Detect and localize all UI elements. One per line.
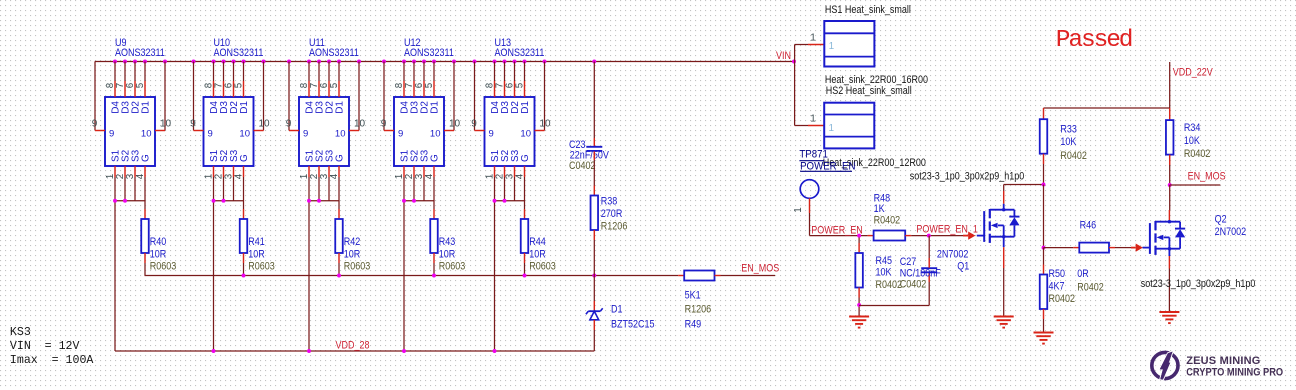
svg-text:10: 10 bbox=[430, 128, 441, 139]
pin numbers U13 8 7 6 5 bbox=[484, 82, 525, 88]
pin name U10 9 bbox=[208, 128, 213, 139]
testpoint TP871 symbol bbox=[800, 180, 819, 199]
pin name U12 9 bbox=[398, 128, 403, 139]
wire VIN to heat sinks riser bbox=[795, 45, 825, 126]
net label POWER_EN bbox=[811, 225, 863, 237]
svg-text:R0402: R0402 bbox=[876, 279, 903, 291]
svg-text:G: G bbox=[430, 154, 441, 162]
wire U13 pin 1 to VDD_28 rail bbox=[494, 177, 496, 351]
wire Q1 source to ground bbox=[1003, 237, 1005, 316]
svg-text:D1: D1 bbox=[430, 101, 441, 114]
svg-text:R0402: R0402 bbox=[1077, 282, 1104, 294]
pin number U11 10 bbox=[354, 118, 366, 129]
svg-text:C27: C27 bbox=[900, 256, 917, 268]
pin names U11 S1 S2 S3 G bbox=[305, 149, 346, 162]
junction dots VDD_28 rail bbox=[212, 349, 497, 353]
wires U12 pins 2,3 to tie bbox=[414, 177, 424, 201]
transistor Q1 (2N7002) bbox=[977, 208, 1020, 243]
pin number U9 10 bbox=[160, 118, 172, 129]
junction dots EN_MOS rail bbox=[242, 274, 597, 278]
resistor R44 bbox=[521, 219, 529, 253]
label R50 bbox=[1049, 268, 1076, 305]
svg-text:R0603: R0603 bbox=[248, 261, 275, 273]
svg-text:10: 10 bbox=[160, 118, 172, 129]
net label EN_MOS (right) bbox=[1170, 171, 1226, 185]
wire VIN bus bbox=[95, 61, 794, 63]
svg-text:R50: R50 bbox=[1049, 268, 1066, 280]
wire R46 to Q2 gate bbox=[1109, 247, 1131, 249]
pin name HS2 1 bbox=[829, 123, 835, 134]
svg-text:R0402: R0402 bbox=[874, 214, 901, 226]
wire U12 pin 9 (left) to bus bbox=[384, 62, 394, 131]
junction dot R45/C27 ground node bbox=[857, 303, 861, 307]
svg-text:10R: 10R bbox=[439, 248, 456, 260]
svg-text:G: G bbox=[335, 154, 346, 162]
svg-text:POWER_EN: POWER_EN bbox=[800, 160, 855, 173]
svg-text:CRYPTO MINING PRO: CRYPTO MINING PRO bbox=[1186, 367, 1283, 379]
ic U13 designator/comment labels bbox=[495, 37, 545, 59]
pin numbers U12 1 2 3 4 bbox=[394, 173, 435, 179]
label R33 bbox=[1060, 123, 1087, 162]
svg-text:AONS32311: AONS32311 bbox=[404, 47, 454, 59]
ic U10 (AONS32311) body bbox=[204, 97, 254, 166]
wire U13 pin 10 (right) to bus bbox=[535, 62, 545, 131]
svg-text:R42: R42 bbox=[344, 236, 361, 248]
resistor R46 bbox=[1079, 243, 1109, 253]
wire U10 pin 4 (G) to resistor bbox=[243, 177, 245, 219]
svg-text:Imax = 100A: Imax = 100A bbox=[10, 354, 94, 367]
pin names U13 D4 D3 D2 D1 bbox=[490, 101, 531, 114]
svg-text:R1206: R1206 bbox=[601, 221, 628, 233]
svg-text:4: 4 bbox=[424, 173, 435, 179]
ground (Q1 source) bbox=[994, 317, 1014, 328]
net label VDD_28 bbox=[336, 340, 370, 352]
wire Q1 drain node to R46 node bbox=[1043, 185, 1045, 248]
wire R48 to Q1 gate bbox=[905, 235, 966, 237]
wires U13 top pins 8-5 to VIN bus bbox=[495, 62, 525, 98]
wire U13 pin 4 (G) to resistor bbox=[524, 177, 526, 219]
pin name U9 9 bbox=[109, 128, 114, 139]
junction dots on VIN bus bbox=[113, 60, 796, 64]
svg-text:R41: R41 bbox=[248, 236, 265, 248]
svg-text:10: 10 bbox=[239, 128, 250, 139]
wire U9 source tie bbox=[115, 200, 145, 202]
wire VDD rail (R33 top) bbox=[1044, 108, 1170, 119]
svg-text:R0402: R0402 bbox=[1049, 293, 1076, 305]
resistor R50 bbox=[1040, 275, 1048, 310]
wire bus to C23 bbox=[593, 62, 595, 147]
pin number U13 10 bbox=[539, 118, 551, 129]
label R34 bbox=[1184, 122, 1211, 160]
svg-text:BZT52C15: BZT52C15 bbox=[611, 319, 655, 331]
resistor R43 bbox=[430, 219, 438, 253]
pin numbers U10 1 2 3 4 bbox=[203, 173, 244, 179]
svg-text:R1206: R1206 bbox=[685, 304, 712, 316]
svg-text:5: 5 bbox=[135, 82, 146, 88]
pin names U9 S1 S2 S3 G bbox=[111, 149, 152, 162]
svg-text:9: 9 bbox=[381, 118, 387, 129]
junction dots U11 tie bbox=[307, 199, 321, 203]
svg-text:9: 9 bbox=[208, 128, 213, 139]
heat sink HS1 bbox=[824, 21, 874, 67]
wire U13 source tie bbox=[495, 200, 525, 202]
wire R44 to EN_MOS rail bbox=[524, 253, 526, 276]
ic U13 (AONS32311) body bbox=[485, 97, 535, 166]
svg-text:10K: 10K bbox=[876, 266, 892, 278]
label C23 bbox=[569, 139, 609, 172]
svg-text:1: 1 bbox=[829, 123, 835, 134]
wire Q2 source to ground bbox=[1168, 249, 1170, 311]
pin numbers U9 8 7 6 5 bbox=[105, 82, 146, 88]
wire ground node to C27 bbox=[859, 273, 929, 306]
svg-text:Q2: Q2 bbox=[1215, 214, 1227, 226]
svg-text:4: 4 bbox=[135, 173, 146, 179]
svg-text:9: 9 bbox=[303, 128, 308, 139]
svg-text:1: 1 bbox=[829, 41, 835, 52]
wire U12 pin 1 to VDD_28 rail bbox=[403, 177, 405, 351]
arrow into Q2 gate bbox=[1131, 244, 1143, 252]
svg-text:D1: D1 bbox=[239, 101, 250, 114]
svg-text:5: 5 bbox=[424, 82, 435, 88]
svg-text:10: 10 bbox=[539, 118, 551, 129]
svg-text:2N7002: 2N7002 bbox=[1215, 226, 1247, 238]
wire U12 pin 10 (right) to bus bbox=[444, 62, 454, 131]
label R45 bbox=[876, 255, 903, 291]
svg-text:9: 9 bbox=[398, 128, 403, 139]
pin numbers U11 1 2 3 4 bbox=[299, 173, 340, 179]
wire U9 pin 10 (right) to bus bbox=[155, 62, 165, 131]
ground (R50) bbox=[1034, 333, 1054, 344]
resistor R41 bbox=[240, 219, 248, 253]
svg-text:AONS32311: AONS32311 bbox=[214, 47, 264, 59]
net label EN_MOS (left) bbox=[741, 263, 779, 275]
wires U13 pins 2,3 to tie bbox=[505, 177, 515, 201]
pin numbers U10 8 7 6 5 bbox=[203, 82, 244, 88]
resistor R49 bbox=[684, 271, 714, 281]
wire R43 to EN_MOS rail bbox=[433, 253, 435, 276]
junction dots U10 tie bbox=[212, 199, 226, 203]
pin names U10 D4 D3 D2 D1 bbox=[209, 101, 250, 114]
svg-text:9: 9 bbox=[92, 118, 98, 129]
svg-text:10: 10 bbox=[335, 128, 346, 139]
pin name U9 10 bbox=[141, 128, 152, 139]
svg-text:R0603: R0603 bbox=[344, 261, 371, 273]
pins U12 bottom 1-4 stubs bbox=[404, 166, 434, 177]
label R44 value/footprint bbox=[529, 236, 556, 273]
label R46 value/footprint bbox=[1077, 268, 1104, 294]
wire U13 pin 9 (left) to bus bbox=[475, 62, 485, 131]
net label VIN bbox=[776, 50, 791, 62]
wire U12 source tie bbox=[404, 200, 434, 202]
pins U9 bottom 1-4 stubs bbox=[115, 166, 145, 177]
svg-text:G: G bbox=[520, 154, 531, 162]
label R40 value/footprint bbox=[150, 236, 177, 273]
stamp Passed bbox=[1056, 27, 1132, 54]
svg-text:D1: D1 bbox=[141, 101, 152, 114]
svg-text:C0402: C0402 bbox=[569, 160, 596, 172]
net label POWER_EN_1 bbox=[916, 224, 978, 236]
label Q1 bbox=[937, 249, 970, 273]
svg-text:9: 9 bbox=[109, 128, 114, 139]
svg-text:10K: 10K bbox=[1184, 135, 1200, 147]
wires U9 top pins 8-5 to VIN bus bbox=[115, 62, 145, 98]
junction dots U9 tie bbox=[113, 199, 127, 203]
wire U10 pin 9 (left) to bus bbox=[194, 62, 204, 131]
ic U11 (AONS32311) body bbox=[299, 97, 349, 166]
pin number HS1 1 bbox=[810, 33, 816, 44]
wire R46 node to R50 bbox=[1043, 248, 1045, 275]
pins U10 bottom 1-4 stubs bbox=[214, 166, 244, 177]
pin names U13 S1 S2 S3 G bbox=[490, 149, 531, 162]
wire U10 pin 10 (right) to bus bbox=[254, 62, 264, 131]
label HS1 bbox=[825, 4, 911, 16]
svg-text:AONS32311: AONS32311 bbox=[309, 47, 359, 59]
ic U9 designator/comment labels bbox=[115, 37, 165, 59]
svg-text:9: 9 bbox=[190, 118, 196, 129]
transistor Q2 (2N7002) bbox=[1143, 220, 1186, 255]
svg-text:R33: R33 bbox=[1060, 123, 1077, 135]
junction dot Q1 drain node bbox=[1042, 183, 1046, 187]
pin names U9 D4 D3 D2 D1 bbox=[111, 101, 152, 114]
svg-text:1K: 1K bbox=[874, 203, 885, 215]
wire U11 source tie bbox=[309, 200, 339, 202]
svg-text:R0402: R0402 bbox=[1184, 148, 1211, 160]
wire U9 pin 1 to VDD_28 rail bbox=[114, 177, 116, 351]
wire U11 pin 4 (G) to resistor bbox=[338, 177, 340, 219]
svg-text:R40: R40 bbox=[150, 236, 167, 248]
pin numbers U12 8 7 6 5 bbox=[394, 82, 435, 88]
svg-text:1: 1 bbox=[810, 114, 816, 125]
svg-text:R0603: R0603 bbox=[150, 261, 177, 273]
resistor R48 bbox=[874, 231, 906, 241]
label HS2 bbox=[826, 85, 912, 97]
ic U10 designator/comment labels bbox=[214, 37, 264, 59]
svg-text:D1: D1 bbox=[520, 101, 531, 114]
svg-text:10R: 10R bbox=[248, 248, 265, 260]
capacitor C23 bbox=[586, 147, 602, 151]
wire R33 to Q1 drain node bbox=[1043, 154, 1045, 185]
svg-text:G: G bbox=[239, 154, 250, 162]
label Q1 footprint bbox=[910, 171, 1025, 183]
svg-text:R0603: R0603 bbox=[439, 261, 466, 273]
wire R38 to rail and D1 bbox=[593, 230, 595, 311]
wire U12 pin 4 (G) to resistor bbox=[433, 177, 435, 219]
svg-text:R43: R43 bbox=[439, 236, 456, 248]
svg-text:10R: 10R bbox=[529, 248, 546, 260]
pin number HS2 1 bbox=[810, 114, 816, 125]
svg-text:9: 9 bbox=[471, 118, 477, 129]
label R38 bbox=[601, 196, 628, 233]
svg-text:D1: D1 bbox=[335, 101, 346, 114]
svg-text:9: 9 bbox=[286, 118, 292, 129]
pin number U13 9 bbox=[471, 118, 477, 129]
wires U12 top pins 8-5 to VIN bus bbox=[404, 62, 434, 98]
svg-text:HS2 Heat_sink_small: HS2 Heat_sink_small bbox=[826, 85, 912, 97]
svg-text:G: G bbox=[141, 154, 152, 162]
wire rail to R45 bbox=[858, 236, 860, 253]
logo Zeus Mining bbox=[1152, 352, 1283, 380]
wires U10 top pins 8-5 to VIN bus bbox=[214, 62, 244, 98]
svg-text:1: 1 bbox=[810, 33, 816, 44]
svg-text:R46: R46 bbox=[1080, 219, 1097, 231]
label Q2 footprint bbox=[1141, 278, 1256, 290]
pin numbers U11 8 7 6 5 bbox=[299, 82, 340, 88]
svg-text:R34: R34 bbox=[1184, 122, 1201, 134]
wires U11 pins 2,3 to tie bbox=[319, 177, 329, 201]
wire EN_MOS node to Q2 drain bbox=[1168, 185, 1170, 222]
wire TP871 to POWER_EN rail bbox=[809, 198, 811, 235]
wires U10 pins 2,3 to tie bbox=[224, 177, 234, 201]
pin name HS1 1 bbox=[829, 41, 835, 52]
ground (Q2 source) bbox=[1159, 312, 1179, 323]
wire C27 to POWER_EN_1 bbox=[928, 236, 930, 268]
pin name U13 9 bbox=[489, 128, 494, 139]
svg-text:R44: R44 bbox=[529, 236, 546, 248]
svg-text:10: 10 bbox=[258, 118, 270, 129]
pin number U12 10 bbox=[449, 118, 461, 129]
svg-text:5K1: 5K1 bbox=[685, 290, 701, 302]
label TP871 bbox=[799, 148, 828, 161]
svg-text:sot23-3_1p0_3p0x2p9_h1p0: sot23-3_1p0_3p0x2p9_h1p0 bbox=[1141, 278, 1256, 290]
svg-text:VDD_22V: VDD_22V bbox=[1173, 67, 1213, 79]
pin names U12 D4 D3 D2 D1 bbox=[400, 101, 441, 114]
pin name U10 10 bbox=[239, 128, 250, 139]
resistor R40 bbox=[141, 219, 149, 253]
ic U11 designator/comment labels bbox=[309, 37, 359, 59]
label R42 value/footprint bbox=[344, 236, 371, 273]
label POWER_EN (testpoint) bbox=[800, 160, 855, 173]
resistor R33 bbox=[1040, 119, 1048, 154]
svg-text:D1: D1 bbox=[611, 304, 623, 316]
ground (R45/C27) bbox=[849, 317, 869, 328]
wire R45 to ground bbox=[858, 288, 860, 316]
pin name U11 10 bbox=[335, 128, 346, 139]
pin number TP871 1 bbox=[793, 207, 804, 212]
junction dot EN_MOS node bbox=[1168, 183, 1172, 187]
svg-text:VIN: VIN bbox=[776, 50, 791, 62]
svg-text:4: 4 bbox=[514, 173, 525, 179]
label HS1 footprint bbox=[825, 74, 928, 86]
svg-text:10: 10 bbox=[449, 118, 461, 129]
svg-text:AONS32311: AONS32311 bbox=[495, 47, 545, 59]
wire R49 to EN_MOS label bbox=[715, 275, 776, 277]
junction dots U13 tie bbox=[493, 199, 507, 203]
wires U9 pins 2,3 to tie bbox=[125, 177, 135, 201]
wire U11 pin 1 to VDD_28 rail bbox=[308, 177, 310, 351]
wire POWER_EN rail bbox=[810, 235, 874, 237]
wire U9 pin 4 (G) to resistor bbox=[144, 177, 146, 219]
svg-text:10: 10 bbox=[520, 128, 531, 139]
pin name U11 9 bbox=[303, 128, 308, 139]
wire U9 pin 9 (left) to bus bbox=[95, 62, 105, 131]
junction dot R45 top bbox=[857, 234, 861, 238]
wire U10 source tie bbox=[214, 200, 244, 202]
ic U12 designator/comment labels bbox=[404, 37, 454, 59]
svg-text:POWER_EN: POWER_EN bbox=[811, 225, 863, 237]
svg-text:4: 4 bbox=[233, 173, 244, 179]
label R41 value/footprint bbox=[248, 236, 275, 273]
note Imax = 100A bbox=[10, 354, 94, 367]
resistor R42 bbox=[335, 219, 343, 253]
svg-text:AONS32311: AONS32311 bbox=[115, 47, 165, 59]
resistor R34 bbox=[1166, 120, 1174, 155]
wire EN_MOS rail bbox=[145, 275, 685, 277]
net label VDD_22V bbox=[1173, 67, 1213, 79]
svg-text:ZEUS MINING: ZEUS MINING bbox=[1186, 355, 1260, 367]
svg-text:sot23-3_1p0_3p0x2p9_h1p0: sot23-3_1p0_3p0x2p9_h1p0 bbox=[910, 171, 1025, 183]
wire R40 to EN_MOS rail bbox=[144, 253, 146, 276]
wire U11 pin 9 (left) to bus bbox=[289, 62, 299, 131]
wire R50 to ground bbox=[1043, 309, 1045, 332]
svg-text:5: 5 bbox=[514, 82, 525, 88]
label Q2 bbox=[1215, 214, 1247, 238]
svg-text:5: 5 bbox=[233, 82, 244, 88]
label D1 bbox=[611, 304, 655, 331]
wire VDD_22V bbox=[1169, 62, 1171, 120]
svg-text:0R: 0R bbox=[1077, 268, 1089, 280]
wire R41 to EN_MOS rail bbox=[243, 253, 245, 276]
label R48 bbox=[874, 193, 901, 227]
pin name U12 10 bbox=[430, 128, 441, 139]
svg-text:10: 10 bbox=[141, 128, 152, 139]
wire R34 to EN_MOS node bbox=[1169, 155, 1171, 185]
wire U11 pin 10 (right) to bus bbox=[349, 62, 359, 131]
svg-text:4K7: 4K7 bbox=[1049, 280, 1065, 292]
pin number U11 9 bbox=[286, 118, 292, 129]
pin names U12 S1 S2 S3 G bbox=[400, 149, 441, 162]
svg-text:Q1: Q1 bbox=[957, 260, 969, 272]
svg-text:2N7002: 2N7002 bbox=[937, 249, 969, 261]
pin numbers U9 1 2 3 4 bbox=[105, 173, 146, 179]
label R43 value/footprint bbox=[439, 236, 466, 273]
junction dot R46 node bbox=[1042, 246, 1046, 250]
svg-text:R0402: R0402 bbox=[1060, 150, 1087, 162]
pin number U9 9 bbox=[92, 118, 98, 129]
svg-text:EN_MOS: EN_MOS bbox=[1188, 171, 1226, 183]
note VIN = 12V bbox=[10, 340, 80, 353]
junction dot POWER_EN_1 bbox=[927, 234, 931, 238]
resistor R45 bbox=[855, 253, 863, 288]
svg-text:10K: 10K bbox=[1060, 136, 1076, 148]
diode D1 (zener BZT52C15) bbox=[586, 308, 603, 320]
pin number U10 10 bbox=[258, 118, 270, 129]
svg-text:1: 1 bbox=[793, 207, 804, 212]
svg-text:10R: 10R bbox=[150, 248, 167, 260]
wire D1 to VDD_28 rail bbox=[593, 320, 595, 351]
svg-text:HS1 Heat_sink_small: HS1 Heat_sink_small bbox=[825, 4, 911, 16]
svg-text:270R: 270R bbox=[601, 208, 623, 220]
svg-text:10R: 10R bbox=[344, 248, 361, 260]
label R49 value/footprint bbox=[685, 290, 712, 331]
pins U13 bottom 1-4 stubs bbox=[495, 166, 525, 177]
pin number U10 9 bbox=[190, 118, 196, 129]
svg-text:R0603: R0603 bbox=[529, 261, 556, 273]
svg-text:EN_MOS: EN_MOS bbox=[741, 263, 779, 275]
ic U9 (AONS32311) body bbox=[105, 97, 155, 166]
svg-text:C0402: C0402 bbox=[900, 279, 927, 291]
svg-text:9: 9 bbox=[489, 128, 494, 139]
ic U12 (AONS32311) body bbox=[394, 97, 444, 166]
svg-text:5: 5 bbox=[329, 82, 340, 88]
svg-text:KS3: KS3 bbox=[10, 326, 31, 339]
pin names U11 D4 D3 D2 D1 bbox=[305, 101, 346, 114]
svg-text:Passed: Passed bbox=[1056, 27, 1132, 54]
wires U11 top pins 8-5 to VIN bus bbox=[309, 62, 339, 98]
wire U10 pin 1 to VDD_28 rail bbox=[213, 177, 215, 351]
pin numbers U13 1 2 3 4 bbox=[484, 173, 525, 179]
label C27 bbox=[900, 256, 941, 291]
svg-text:R38: R38 bbox=[601, 196, 618, 208]
